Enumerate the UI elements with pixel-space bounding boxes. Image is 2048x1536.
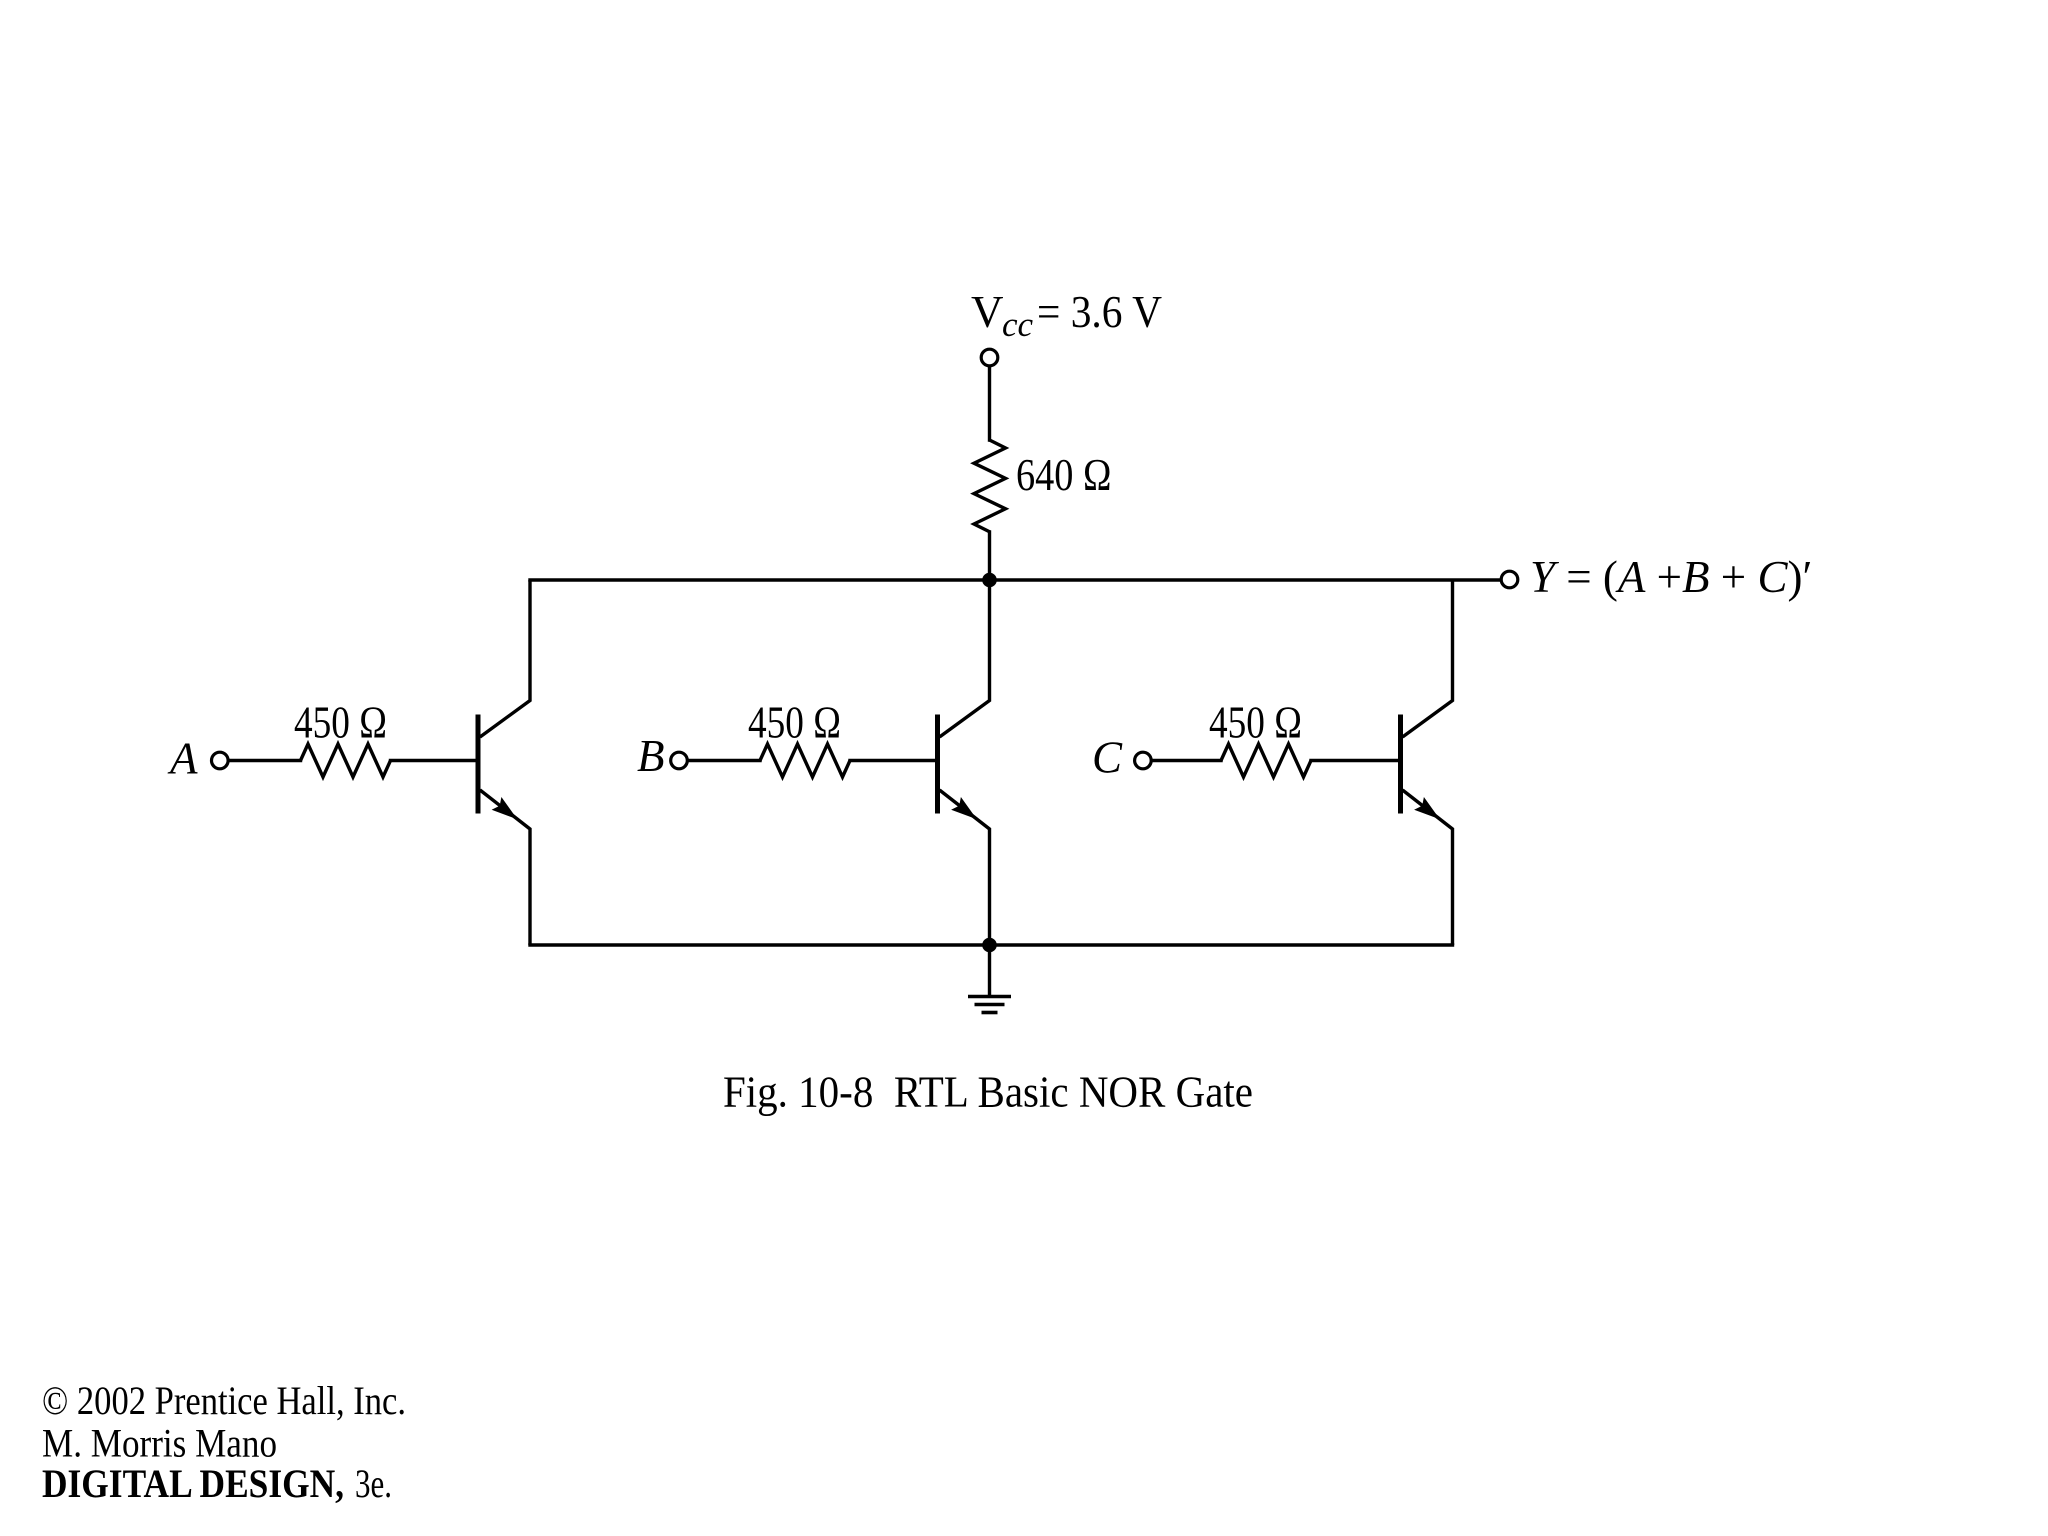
svg-text:M. Morris Mano: M. Morris Mano <box>42 1421 277 1466</box>
svg-text:450 Ω: 450 Ω <box>1209 698 1302 748</box>
wire terminal C to resistor <box>1152 759 1221 762</box>
label Vcc = 3.6 V <box>971 287 1162 344</box>
svg-text:Y = (A +B + C)′: Y = (A +B + C)′ <box>1530 552 1812 602</box>
transistor Q3 <box>1401 580 1453 945</box>
resistor R1 640 ohm (vertical zigzag) <box>974 440 1006 532</box>
resistor 450 ohm input C <box>1221 744 1311 777</box>
wire bottom rail (common emitter bus) <box>530 943 1453 946</box>
svg-text:450 Ω: 450 Ω <box>294 698 387 748</box>
output terminal Y <box>1501 571 1518 588</box>
svg-text:V: V <box>971 287 1004 337</box>
svg-text:640 Ω: 640 Ω <box>1016 450 1112 500</box>
wire resistor 640 ohm to node Y <box>988 532 991 578</box>
resistor 450 ohm input B <box>760 744 850 777</box>
ground <box>968 997 1011 1013</box>
wire resistor to Q1 base <box>391 759 477 762</box>
terminal Vcc <box>981 349 998 366</box>
resistor 450 ohm input A <box>301 744 391 777</box>
node junction bottom (emitter node) <box>982 938 997 953</box>
svg-text:DIGITAL DESIGN,: DIGITAL DESIGN, <box>42 1461 344 1506</box>
svg-text:450 Ω: 450 Ω <box>748 698 841 748</box>
svg-text:= 3.6 V: = 3.6 V <box>1037 287 1162 337</box>
wire top rail (collector bus to output) <box>530 578 1500 581</box>
wire terminal B to resistor <box>688 759 760 762</box>
transistor Q2 <box>938 580 990 945</box>
terminal A <box>212 752 229 769</box>
transistor Q1 <box>478 580 530 945</box>
wire resistor to Q3 base <box>1311 759 1399 762</box>
wire node to ground <box>988 945 991 995</box>
terminal B <box>671 752 688 769</box>
terminal C <box>1135 752 1152 769</box>
svg-text:C: C <box>1092 733 1123 783</box>
svg-text:© 2002 Prentice Hall, Inc.: © 2002 Prentice Hall, Inc. <box>42 1378 406 1423</box>
wire Vcc terminal to resistor 640 ohm <box>988 367 991 441</box>
wire terminal A to resistor <box>229 759 301 762</box>
wire resistor to Q2 base <box>850 759 936 762</box>
svg-text:Fig. 10-8 RTL Basic NOR Gate: Fig. 10-8 RTL Basic NOR Gate <box>723 1068 1253 1117</box>
svg-text:B: B <box>637 731 665 781</box>
svg-text:cc: cc <box>1002 305 1034 344</box>
svg-text:A: A <box>167 734 198 784</box>
svg-text:3e.: 3e. <box>355 1461 392 1506</box>
node junction top (collector node) <box>982 573 997 588</box>
